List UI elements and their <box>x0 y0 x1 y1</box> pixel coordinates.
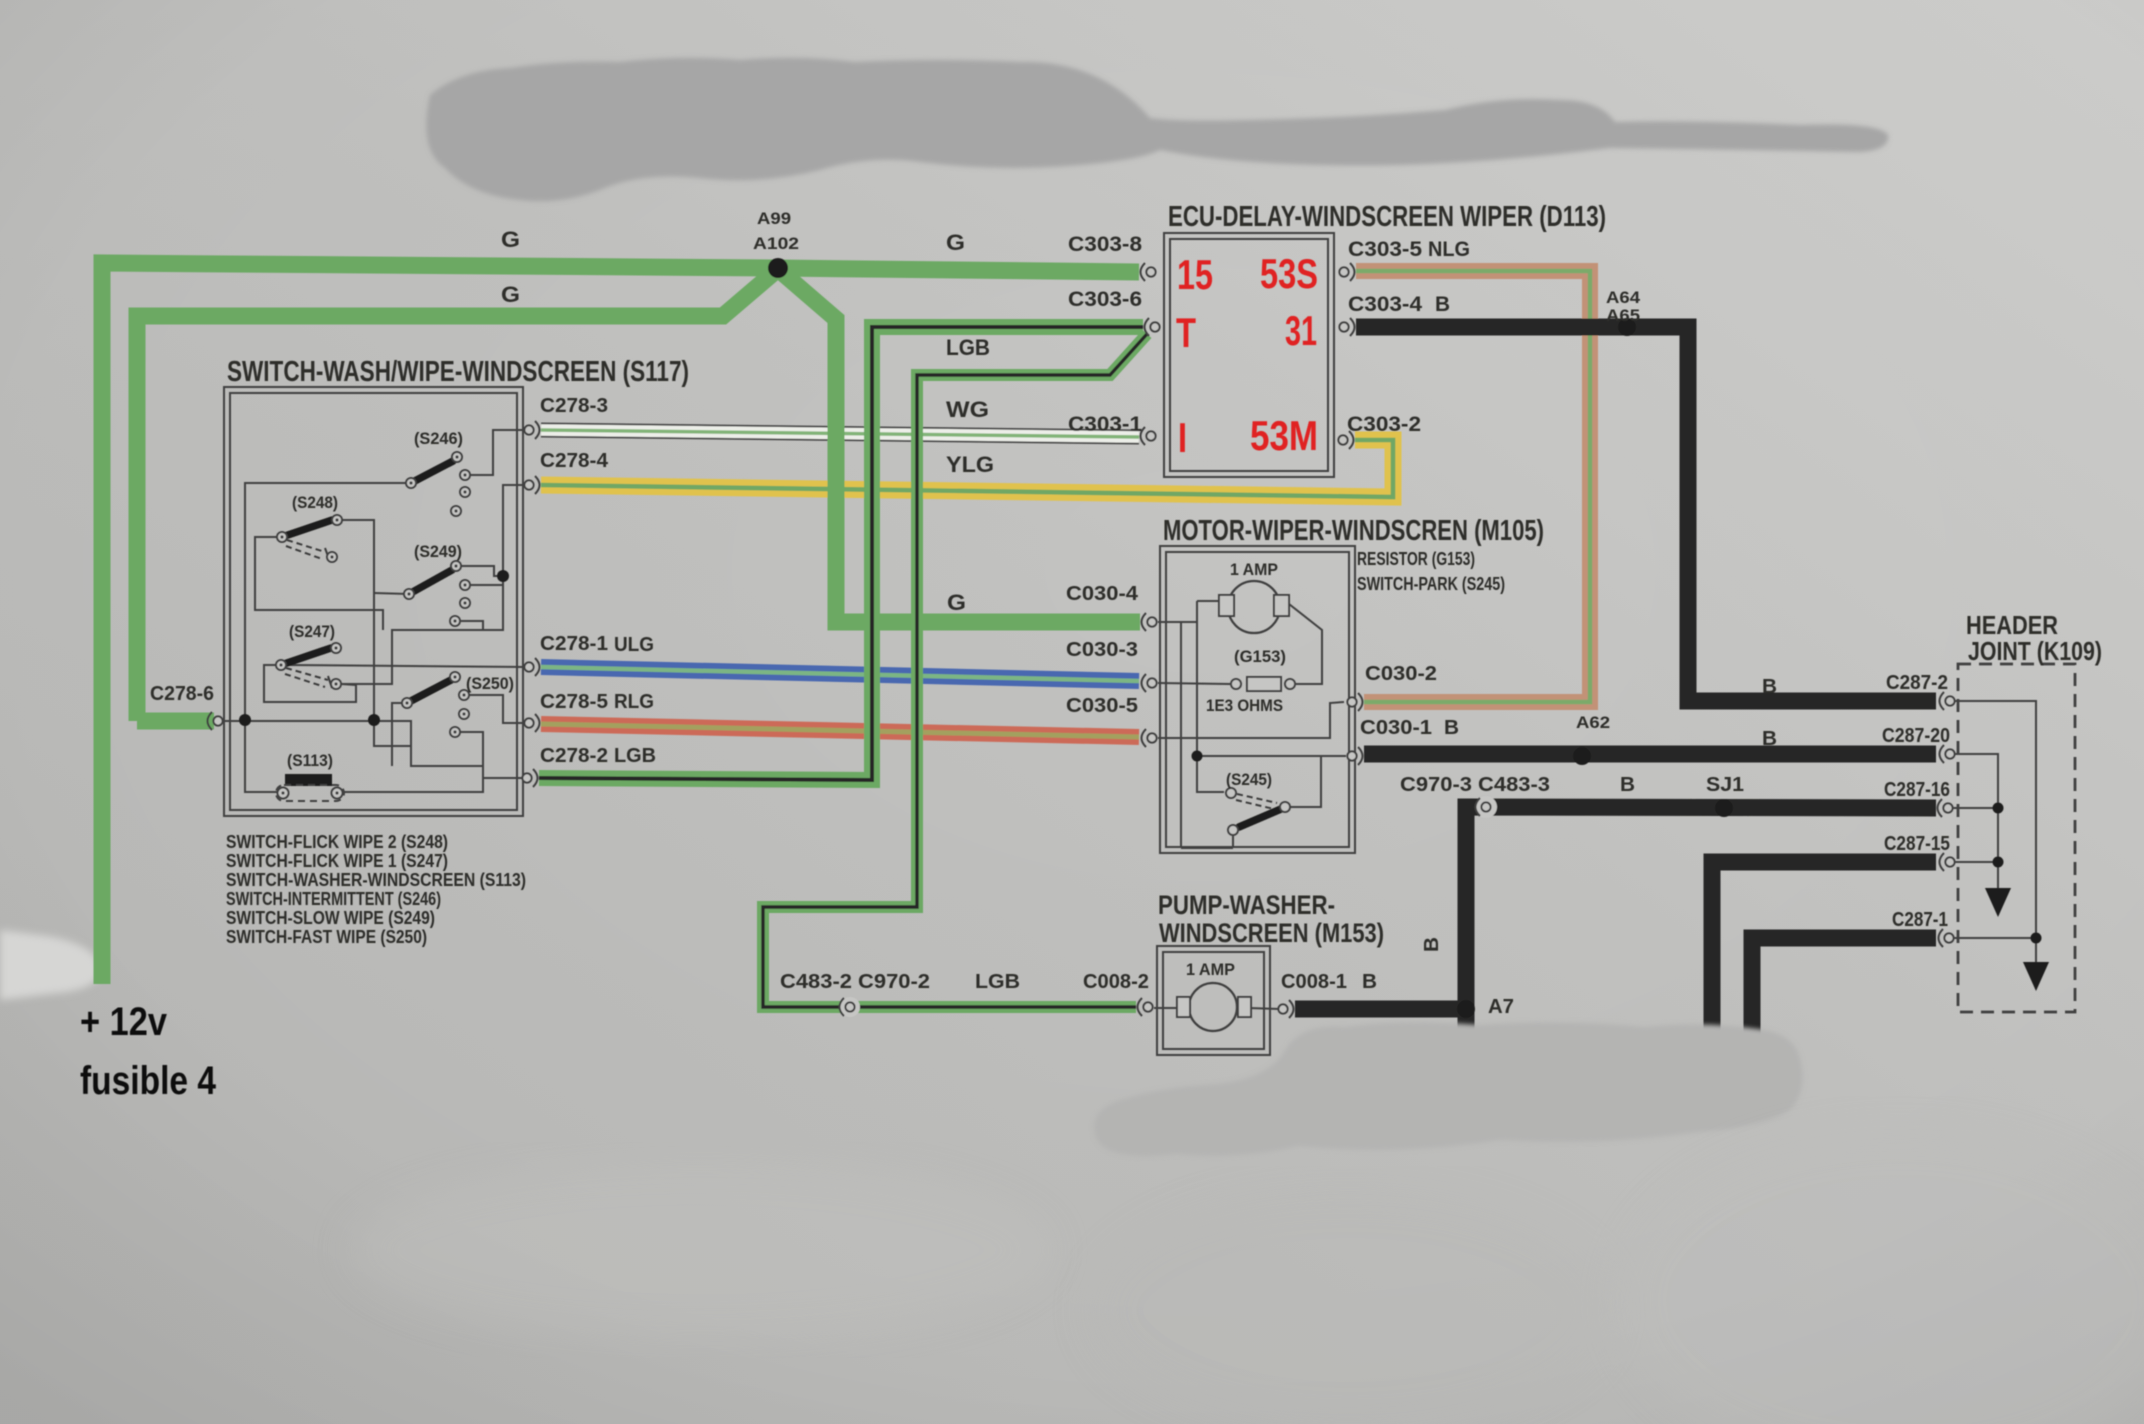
svg-text:C278-1: C278-1 <box>540 633 608 655</box>
svg-text:A64: A64 <box>1606 288 1641 307</box>
svg-text:SWITCH-INTERMITTENT (S246): SWITCH-INTERMITTENT (S246) <box>226 889 441 909</box>
svg-text:C303-6: C303-6 <box>1068 288 1142 311</box>
svg-text:(S113): (S113) <box>287 751 333 770</box>
svg-text:ULG: ULG <box>614 634 654 656</box>
svg-text:G: G <box>946 230 965 255</box>
svg-text:C278-6: C278-6 <box>150 683 214 705</box>
svg-text:B: B <box>1435 293 1450 316</box>
svg-text:WINDSCREEN (M153): WINDSCREEN (M153) <box>1159 918 1384 948</box>
svg-text:ECU-DELAY-WINDSCREEN WIPER (D1: ECU-DELAY-WINDSCREEN WIPER (D113) <box>1168 201 1606 233</box>
svg-text:C303-1: C303-1 <box>1068 413 1142 436</box>
svg-text:fusible 4: fusible 4 <box>80 1059 217 1103</box>
svg-text:I: I <box>1178 414 1187 461</box>
svg-text:B: B <box>1421 937 1443 952</box>
svg-text:C030-3: C030-3 <box>1066 639 1138 661</box>
svg-text:C030-1: C030-1 <box>1360 717 1432 739</box>
svg-text:C303-2: C303-2 <box>1347 413 1421 436</box>
svg-text:G: G <box>947 590 966 615</box>
svg-text:C970-3 C483-3: C970-3 C483-3 <box>1400 774 1550 796</box>
svg-text:(S248): (S248) <box>292 493 338 512</box>
svg-text:53S: 53S <box>1260 250 1318 297</box>
svg-text:(S245): (S245) <box>1226 770 1272 789</box>
svg-text:LGB: LGB <box>614 745 656 767</box>
svg-text:C008-1: C008-1 <box>1281 971 1347 993</box>
svg-text:C030-5: C030-5 <box>1066 695 1138 717</box>
svg-text:C483-2 C970-2: C483-2 C970-2 <box>780 971 930 993</box>
svg-text:LGB: LGB <box>975 971 1020 993</box>
svg-text:SJ1: SJ1 <box>1706 774 1744 796</box>
svg-text:C287-1: C287-1 <box>1892 909 1948 931</box>
svg-text:15: 15 <box>1177 251 1213 298</box>
svg-text:1E3 OHMS: 1E3 OHMS <box>1206 696 1283 715</box>
svg-text:G: G <box>501 282 520 307</box>
svg-text:C287-2: C287-2 <box>1886 672 1948 694</box>
svg-text:NLG: NLG <box>1428 238 1470 261</box>
svg-text:B: B <box>1762 728 1777 750</box>
svg-text:SWITCH-FLICK WIPE 2 (S248): SWITCH-FLICK WIPE 2 (S248) <box>226 832 448 852</box>
svg-text:A7: A7 <box>1488 996 1514 1018</box>
svg-text:C278-2: C278-2 <box>540 745 608 767</box>
svg-text:C030-2: C030-2 <box>1365 663 1437 685</box>
svg-text:C287-20: C287-20 <box>1882 725 1950 747</box>
svg-text:1 AMP: 1 AMP <box>1230 560 1278 579</box>
svg-text:SWITCH-WASHER-WINDSCREEN (S113: SWITCH-WASHER-WINDSCREEN (S113) <box>226 870 526 890</box>
svg-text:C278-5: C278-5 <box>540 691 608 713</box>
svg-text:C303-4: C303-4 <box>1348 293 1422 316</box>
svg-text:JOINT (K109): JOINT (K109) <box>1968 636 2102 666</box>
svg-text:WG: WG <box>946 397 989 422</box>
svg-text:PUMP-WASHER-: PUMP-WASHER- <box>1158 890 1335 920</box>
svg-text:C030-4: C030-4 <box>1066 583 1139 605</box>
svg-text:(S247): (S247) <box>289 622 335 641</box>
svg-text:A99: A99 <box>757 209 791 228</box>
svg-text:B: B <box>1620 774 1635 796</box>
svg-text:B: B <box>1444 717 1459 739</box>
svg-text:(G153): (G153) <box>1234 647 1286 666</box>
svg-text:C303-8: C303-8 <box>1068 233 1142 256</box>
svg-text:(S250): (S250) <box>466 674 514 693</box>
svg-text:(S249): (S249) <box>414 542 462 561</box>
svg-text:YLG: YLG <box>946 452 994 477</box>
svg-text:(S246): (S246) <box>414 429 463 448</box>
svg-text:31: 31 <box>1285 307 1317 354</box>
svg-text:C287-16: C287-16 <box>1884 779 1950 801</box>
svg-text:G: G <box>501 227 520 252</box>
svg-text:SWITCH-WASH/WIPE-WINDSCREEN (S: SWITCH-WASH/WIPE-WINDSCREEN (S117) <box>227 356 689 388</box>
svg-text:A102: A102 <box>753 234 799 253</box>
svg-text:53M: 53M <box>1250 412 1318 459</box>
svg-text:SWITCH-FLICK WIPE 1 (S247): SWITCH-FLICK WIPE 1 (S247) <box>226 851 448 871</box>
svg-text:RESISTOR (G153): RESISTOR (G153) <box>1357 549 1475 569</box>
svg-text:C278-4: C278-4 <box>540 450 609 472</box>
svg-text:B: B <box>1362 971 1377 993</box>
svg-text:C008-2: C008-2 <box>1083 971 1149 993</box>
svg-text:B: B <box>1762 676 1777 698</box>
svg-text:LGB: LGB <box>946 335 990 360</box>
svg-text:A65: A65 <box>1606 306 1640 325</box>
svg-text:SWITCH-FAST WIPE (S250): SWITCH-FAST WIPE (S250) <box>226 927 427 947</box>
svg-text:T: T <box>1176 309 1196 356</box>
svg-text:1 AMP: 1 AMP <box>1186 960 1235 979</box>
svg-text:SWITCH-PARK (S245): SWITCH-PARK (S245) <box>1357 574 1505 594</box>
svg-text:A62: A62 <box>1576 713 1610 732</box>
svg-text:RLG: RLG <box>614 691 654 713</box>
svg-text:C278-3: C278-3 <box>540 395 608 417</box>
svg-text:C287-15: C287-15 <box>1884 833 1950 855</box>
svg-text:+ 12v: + 12v <box>80 1000 168 1044</box>
svg-text:SWITCH-SLOW WIPE (S249): SWITCH-SLOW WIPE (S249) <box>226 908 435 928</box>
svg-text:MOTOR-WIPER-WINDSCREN (M105): MOTOR-WIPER-WINDSCREN (M105) <box>1163 515 1544 547</box>
svg-text:C303-5: C303-5 <box>1348 238 1422 261</box>
